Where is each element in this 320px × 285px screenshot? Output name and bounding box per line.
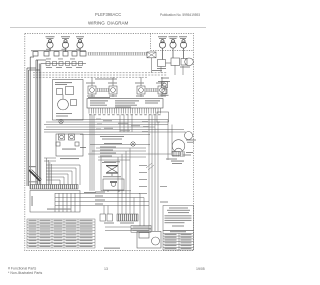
svg-text:13: 13	[104, 267, 108, 271]
svg-text:# Functional Parts: # Functional Parts	[8, 267, 36, 271]
svg-text:* Non-Illustrated Parts: * Non-Illustrated Parts	[8, 271, 42, 275]
svg-text:PLEF398ACC: PLEF398ACC	[95, 12, 121, 17]
svg-text:WIRING DIAGRAM: WIRING DIAGRAM	[88, 21, 129, 26]
svg-text:Publication No. 5995419593: Publication No. 5995419593	[160, 13, 200, 17]
svg-text:19/05: 19/05	[196, 267, 205, 271]
